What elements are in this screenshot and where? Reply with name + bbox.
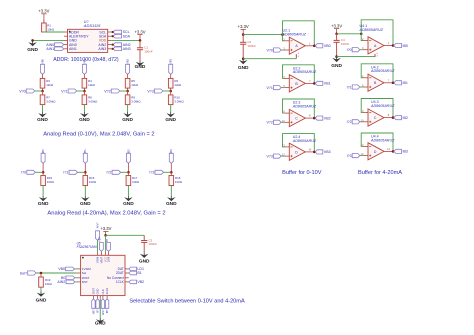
svg-text:1OM: 1OM bbox=[107, 257, 111, 263]
svg-text:GND: GND bbox=[37, 117, 48, 123]
svg-text:AD8605ARUZ: AD8605ARUZ bbox=[292, 70, 317, 74]
svg-text:VB0: VB0 bbox=[58, 267, 65, 271]
svg-text:AD8605ARUZ: AD8605ARUZ bbox=[370, 138, 395, 142]
svg-text:I?1: I?1 bbox=[63, 171, 68, 175]
svg-text:B?: B? bbox=[105, 238, 109, 242]
svg-text:GND: GND bbox=[166, 201, 177, 207]
svg-text:IB1: IB1 bbox=[83, 149, 87, 153]
svg-text:IB0: IB0 bbox=[403, 44, 408, 48]
svg-text:12kΩ: 12kΩ bbox=[131, 83, 139, 87]
svg-text:VB1: VB1 bbox=[324, 82, 331, 86]
svg-text:+3.3V: +3.3V bbox=[331, 23, 342, 28]
svg-text:1CLK: 1CLK bbox=[116, 280, 125, 284]
svg-text:VB2: VB2 bbox=[324, 116, 331, 120]
svg-text:GND: GND bbox=[331, 63, 342, 69]
svg-text:GND: GND bbox=[79, 117, 90, 123]
svg-text:AIN?: AIN? bbox=[101, 309, 105, 315]
svg-text:Sel?: Sel? bbox=[20, 271, 27, 275]
svg-text:CLK: CLK bbox=[101, 289, 105, 294]
svg-text:GND: GND bbox=[238, 65, 249, 71]
svg-text:GND: GND bbox=[96, 289, 100, 295]
svg-text:AD8605ARUZ: AD8605ARUZ bbox=[370, 69, 395, 73]
svg-text:B1: B1 bbox=[137, 271, 141, 275]
svg-text:SDA: SDA bbox=[123, 34, 131, 38]
svg-text:I?3: I?3 bbox=[149, 171, 154, 175]
svg-text:V?0: V?0 bbox=[19, 89, 25, 93]
svg-text:2CLK: 2CLK bbox=[105, 288, 109, 295]
svg-text:VB0: VB0 bbox=[324, 44, 331, 48]
svg-text:V?1: V?1 bbox=[61, 89, 67, 93]
svg-text:10kΩ: 10kΩ bbox=[45, 282, 53, 286]
svg-text:VB2: VB2 bbox=[137, 280, 144, 284]
svg-text:100nF: 100nF bbox=[148, 242, 157, 246]
svg-text:100Ω: 100Ω bbox=[89, 180, 97, 184]
svg-text:100Ω: 100Ω bbox=[175, 180, 183, 184]
svg-text:GND: GND bbox=[135, 64, 146, 70]
svg-text:AD8605ARUZ: AD8605ARUZ bbox=[359, 28, 384, 32]
svg-text:AD8605ARUZ: AD8605ARUZ bbox=[292, 104, 317, 108]
svg-text:GND: GND bbox=[38, 201, 49, 207]
svg-text:V?2: V?2 bbox=[104, 89, 110, 93]
svg-text:100nF: 100nF bbox=[341, 42, 350, 46]
svg-text:IB?: IB? bbox=[105, 309, 109, 313]
svg-text:AIN1: AIN1 bbox=[69, 47, 77, 51]
svg-text:IB3: IB3 bbox=[403, 150, 408, 154]
svg-text:3.09kΩ: 3.09kΩ bbox=[88, 100, 98, 104]
svg-text:AD8605ARUZ: AD8605ARUZ bbox=[292, 139, 317, 143]
svg-text:IB3: IB3 bbox=[169, 149, 173, 153]
svg-text:3.09kΩ: 3.09kΩ bbox=[131, 100, 141, 104]
svg-text:Buffer for 4-20mA: Buffer for 4-20mA bbox=[358, 170, 402, 176]
svg-text:12kΩ: 12kΩ bbox=[46, 83, 54, 87]
svg-text:+3.3V: +3.3V bbox=[238, 24, 249, 29]
svg-text:VB0: VB0 bbox=[40, 59, 44, 64]
svg-text:I?0: I?0 bbox=[347, 48, 352, 52]
svg-text:VB2: VB2 bbox=[126, 59, 130, 64]
svg-text:AIN3: AIN3 bbox=[123, 47, 131, 51]
svg-text:GND: GND bbox=[122, 117, 133, 123]
svg-text:AIN?: AIN? bbox=[96, 222, 100, 228]
svg-text:VSIM: VSIM bbox=[95, 257, 99, 263]
svg-text:VBAT: VBAT bbox=[99, 256, 103, 263]
svg-text:100Ω: 100Ω bbox=[47, 180, 55, 184]
svg-text:V?0: V?0 bbox=[266, 48, 272, 52]
svg-text:I?2: I?2 bbox=[107, 171, 112, 175]
svg-text:3.09kΩ: 3.09kΩ bbox=[174, 100, 184, 104]
svg-text:V?3: V?3 bbox=[266, 154, 272, 158]
svg-text:IB2: IB2 bbox=[126, 149, 130, 153]
svg-text:GND: GND bbox=[80, 201, 91, 207]
svg-text:IB2: IB2 bbox=[403, 116, 408, 120]
svg-text:1RST: 1RST bbox=[91, 287, 95, 294]
svg-text:GND: GND bbox=[95, 320, 106, 326]
svg-text:+3.3V: +3.3V bbox=[134, 29, 145, 34]
svg-text:+3.3V: +3.3V bbox=[100, 226, 111, 231]
svg-text:V?3: V?3 bbox=[147, 89, 153, 93]
svg-text:AIN1: AIN1 bbox=[46, 47, 54, 51]
svg-text:IB1: IB1 bbox=[403, 81, 408, 85]
svg-text:10kΩ: 10kΩ bbox=[47, 27, 55, 31]
svg-text:Buffer for 0-10V: Buffer for 0-10V bbox=[282, 170, 322, 176]
svg-text:2DAT: 2DAT bbox=[116, 271, 124, 275]
svg-text:VB?: VB? bbox=[91, 309, 95, 314]
svg-text:VB3: VB3 bbox=[324, 150, 331, 154]
svg-text:AD8605ARUZ: AD8605ARUZ bbox=[370, 104, 395, 108]
svg-text:B?: B? bbox=[96, 309, 100, 313]
svg-text:100nF: 100nF bbox=[247, 44, 256, 48]
svg-text:3.09kΩ: 3.09kΩ bbox=[46, 100, 56, 104]
svg-text:VB?: VB? bbox=[98, 237, 102, 242]
svg-text:GND: GND bbox=[123, 201, 134, 207]
svg-text:ADS1115: ADS1115 bbox=[83, 23, 101, 28]
svg-text:Analog Read (4-20mA), Max 2.04: Analog Read (4-20mA), Max 2.048V, Gain =… bbox=[47, 211, 165, 217]
svg-text:V?1: V?1 bbox=[266, 86, 272, 90]
svg-text:V?2: V?2 bbox=[266, 121, 272, 125]
svg-text:FSA2567UMX: FSA2567UMX bbox=[77, 245, 98, 249]
svg-text:VB3: VB3 bbox=[169, 59, 173, 64]
svg-text:VB1: VB1 bbox=[82, 59, 86, 64]
svg-text:AIN3: AIN3 bbox=[98, 47, 106, 51]
svg-text:AD8605ARUZ: AD8605ARUZ bbox=[282, 32, 307, 36]
svg-text:I?1: I?1 bbox=[347, 85, 352, 89]
svg-text:I?2: I?2 bbox=[347, 120, 352, 124]
svg-text:100Ω: 100Ω bbox=[132, 180, 140, 184]
svg-text:+3.3V: +3.3V bbox=[38, 9, 49, 14]
svg-text:RST: RST bbox=[82, 280, 88, 284]
svg-text:IB0: IB0 bbox=[41, 149, 45, 153]
svg-text:GND: GND bbox=[165, 117, 176, 123]
svg-text:I?3: I?3 bbox=[347, 154, 352, 158]
svg-text:AIN2: AIN2 bbox=[57, 280, 65, 284]
svg-text:GND: GND bbox=[36, 298, 47, 304]
svg-text:12kΩ: 12kΩ bbox=[174, 83, 182, 87]
svg-text:Sel: Sel bbox=[82, 271, 87, 275]
svg-text:12kΩ: 12kΩ bbox=[88, 83, 96, 87]
svg-text:GND: GND bbox=[139, 259, 150, 265]
svg-text:I?0: I?0 bbox=[21, 171, 26, 175]
svg-text:Analog Read (0-10V), Max 2.048: Analog Read (0-10V), Max 2.048V, Gain = … bbox=[43, 131, 154, 137]
svg-text:GND: GND bbox=[27, 47, 38, 53]
svg-text:Selectable Switch between 0-10: Selectable Switch between 0-10V and 4-20… bbox=[129, 299, 245, 305]
svg-text:100nF: 100nF bbox=[144, 49, 153, 53]
